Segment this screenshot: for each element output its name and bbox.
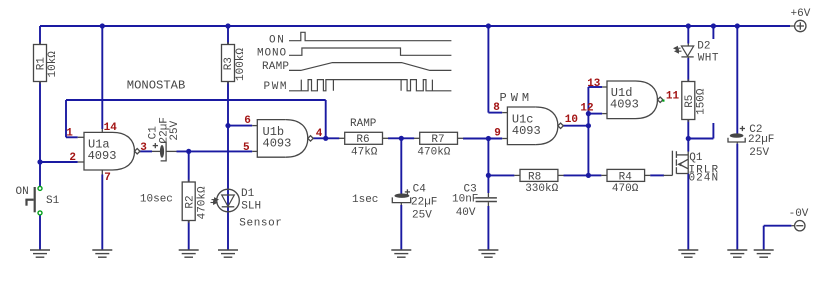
svg-text:R6: R6: [356, 134, 369, 146]
svg-text:22µF: 22µF: [748, 134, 774, 146]
svg-text:150Ω: 150Ω: [696, 88, 708, 115]
svg-text:4: 4: [316, 128, 323, 140]
ground R2: [179, 250, 199, 257]
wire U1b pin 4 output to R6: [313, 137, 339, 139]
node net-10/R4 junction: [586, 173, 591, 178]
svg-text:MONOSTAB: MONOSTAB: [127, 79, 186, 93]
capacitor C2 22uF electrolytic: [736, 133, 738, 136]
svg-text:12: 12: [580, 102, 593, 114]
wire Q1 source to ground: [687, 174, 689, 251]
svg-text:4093: 4093: [263, 136, 292, 150]
svg-text:25V: 25V: [412, 210, 432, 222]
wire stub from rail: [712, 26, 714, 39]
svg-text:Sensor: Sensor: [239, 218, 282, 230]
resistor R6: [345, 132, 383, 144]
power -0V terminal: [791, 225, 794, 227]
ground Q1 source: [678, 250, 698, 257]
wire +6V top rail: [40, 25, 790, 27]
ground C4: [391, 250, 411, 257]
svg-text:S1: S1: [46, 195, 60, 207]
op-amp U1c nand gate 4093: [507, 107, 536, 145]
svg-text:100kΩ: 100kΩ: [235, 48, 247, 81]
svg-text:R7: R7: [431, 134, 444, 146]
svg-text:3: 3: [140, 142, 147, 154]
svg-text:1: 1: [66, 128, 73, 140]
wire node to R4: [588, 174, 601, 176]
ground S1: [30, 250, 50, 257]
node C1/R2/pin5 junction: [186, 149, 191, 154]
wire C4 to ground: [400, 205, 402, 250]
svg-text:4093: 4093: [88, 149, 117, 163]
wire U1c pin 10 output to net-10: [563, 125, 589, 127]
svg-text:R3: R3: [223, 57, 235, 70]
wire C3 to ground: [487, 206, 489, 250]
svg-text:8: 8: [493, 102, 500, 114]
wire rail down to U1c pin 8: [487, 26, 489, 113]
node rail/R3 junction: [225, 23, 230, 28]
node R1/S1/pin2 junction: [37, 159, 42, 164]
resistor R2: [182, 182, 195, 221]
svg-text:14: 14: [104, 122, 118, 134]
ground -0V: [754, 250, 774, 257]
svg-text:25V: 25V: [169, 120, 181, 140]
wire R7 to U1c pin 9: [463, 138, 502, 140]
wire rail down to C2: [736, 26, 738, 134]
svg-text:9: 9: [494, 128, 501, 140]
svg-text:R8: R8: [528, 171, 541, 183]
resistor R3: [222, 45, 235, 82]
svg-text:470Ω: 470Ω: [612, 183, 639, 195]
wire pin9 node down to R8 row: [487, 139, 489, 194]
svg-text:D1: D1: [241, 188, 255, 200]
ground D1: [218, 250, 238, 257]
svg-text:10: 10: [565, 114, 578, 126]
svg-text:13: 13: [587, 78, 601, 90]
wire R1 bottom to S1: [39, 82, 41, 187]
wire drain node stub: [688, 138, 713, 140]
waveform diagram ON trace: [289, 32, 451, 40]
svg-text:RAMP: RAMP: [350, 118, 377, 130]
wire U1d pin 12: [588, 113, 602, 115]
wire U1a pin 1 feedback from U1b output: [66, 136, 78, 138]
resistor R7: [420, 132, 458, 144]
svg-text:R4: R4: [619, 171, 633, 183]
svg-text:1sec: 1sec: [352, 194, 378, 206]
svg-text:PWM: PWM: [264, 81, 289, 93]
node rail/D2 junction: [686, 23, 691, 28]
svg-text:C4: C4: [413, 184, 427, 196]
waveform diagram RAMP trace: [289, 63, 451, 71]
ground U1a pin7: [92, 250, 112, 257]
wire net-10 vertical (pins 13,12,10,R8,R4): [587, 87, 589, 175]
svg-text:RAMP: RAMP: [262, 61, 289, 73]
svg-text:+6V: +6V: [791, 8, 811, 20]
wire node down to R2: [188, 151, 190, 182]
waveform diagram PWM trace: [289, 80, 451, 91]
svg-text:6: 6: [244, 115, 251, 127]
svg-text:4093: 4093: [512, 124, 541, 138]
node rail/C2 junction: [735, 23, 740, 28]
wire -0V to ground: [764, 225, 792, 227]
svg-text:R5: R5: [684, 95, 696, 108]
node drain/R5/stub junction: [686, 136, 691, 141]
svg-text:5: 5: [243, 142, 250, 154]
node rail stub junction: [711, 23, 716, 28]
svg-text:MONO: MONO: [257, 48, 287, 60]
svg-text:WHT: WHT: [698, 52, 719, 64]
wire R4 to Q1 gate: [650, 174, 664, 176]
wire D2 cathode to R5: [687, 58, 689, 82]
svg-text:7: 7: [104, 172, 111, 184]
svg-text:10nF: 10nF: [452, 194, 478, 206]
op-amp U1a nand gate 4093: [84, 132, 113, 170]
resistor R1: [34, 45, 47, 82]
svg-text:10sec: 10sec: [140, 194, 173, 206]
svg-text:47kΩ: 47kΩ: [351, 146, 378, 158]
svg-text:C1: C1: [147, 126, 159, 140]
waveform diagram MONO trace: [289, 48, 451, 55]
wire rail to R1: [39, 26, 41, 45]
wire node to U1a pin 2: [40, 161, 78, 163]
transistor Q1 nmos IRLR024N: [664, 151, 689, 176]
op-amp U1d nand gate 4093: [607, 81, 636, 119]
svg-text:ON: ON: [16, 186, 29, 198]
wire S1 to ground: [39, 215, 41, 250]
resistor R8: [520, 169, 558, 181]
capacitor C3 10nF: [487, 193, 489, 197]
node net-10/pin12 junction: [586, 111, 591, 116]
wire rail to R3: [227, 26, 229, 45]
ground C2: [727, 250, 747, 257]
svg-text:470kΩ: 470kΩ: [197, 186, 209, 219]
no-connect marker pin 11: [662, 100, 664, 102]
wire U1a pin 3 output to C1: [139, 150, 152, 152]
resistor R4: [607, 169, 645, 181]
svg-text:R2: R2: [184, 195, 196, 208]
wire node to U1b pin 6: [228, 125, 252, 127]
svg-text:D2: D2: [697, 41, 710, 53]
node rail/pin14 junction: [100, 23, 105, 28]
wire R6 to R7: [388, 137, 414, 139]
node R7/pin9/R8 junction: [486, 136, 491, 141]
wire U1d pin 13: [588, 86, 602, 88]
node R3/D1/pin6 junction: [225, 123, 230, 128]
svg-text:Q1: Q1: [689, 152, 703, 164]
wire R3 bottom through D1 to ground: [227, 82, 229, 251]
svg-text:40V: 40V: [456, 207, 476, 219]
svg-text:10kΩ: 10kΩ: [47, 51, 59, 78]
capacitor C4 22uF electrolytic: [400, 193, 402, 196]
node R8/C3 junction: [486, 173, 491, 178]
wire R5 to Q1 drain: [687, 120, 689, 152]
op-amp U1b nand gate 4093: [257, 120, 286, 158]
capacitor C1 22uF electrolytic: [152, 150, 160, 152]
wire R2 to ground: [188, 221, 190, 251]
wire R8 to net-10 node: [564, 174, 589, 176]
power +6V terminal: [790, 25, 795, 27]
node pin4/feedback junction: [323, 136, 328, 141]
svg-text:22µF: 22µF: [411, 197, 437, 209]
diode D1 photodiode sensor: [217, 189, 240, 212]
node R6/R7/C4 junction: [399, 136, 404, 141]
svg-text:PWM: PWM: [500, 91, 534, 105]
wire rail down to U1a pin 14: [101, 26, 103, 129]
wire C1 to U1b pin 5: [177, 150, 253, 152]
svg-text:25V: 25V: [749, 147, 769, 159]
wire node down to C4: [400, 138, 402, 193]
svg-text:470kΩ: 470kΩ: [417, 146, 450, 158]
ground C3: [478, 250, 498, 257]
svg-text:-0V: -0V: [789, 208, 809, 220]
wire node to R8: [488, 174, 514, 176]
svg-text:4093: 4093: [610, 98, 639, 112]
switch S1 pushbutton: [25, 187, 34, 212]
svg-text:11: 11: [666, 91, 680, 103]
wire C2 to ground: [736, 144, 738, 250]
svg-text:2: 2: [69, 152, 76, 164]
wire U1a pin7 to ground: [101, 175, 103, 251]
svg-text:330kΩ: 330kΩ: [525, 183, 558, 195]
node pin10 junction: [586, 123, 591, 128]
svg-text:ON: ON: [269, 35, 285, 47]
diode D2 LED white: [681, 46, 693, 56]
resistor R5: [682, 82, 695, 120]
node rail/pin8 junction: [486, 23, 491, 28]
svg-text:024N: 024N: [689, 173, 720, 185]
wire rail to D2 anode: [687, 26, 689, 44]
svg-text:SLH: SLH: [241, 201, 261, 213]
svg-text:R1: R1: [36, 57, 48, 71]
